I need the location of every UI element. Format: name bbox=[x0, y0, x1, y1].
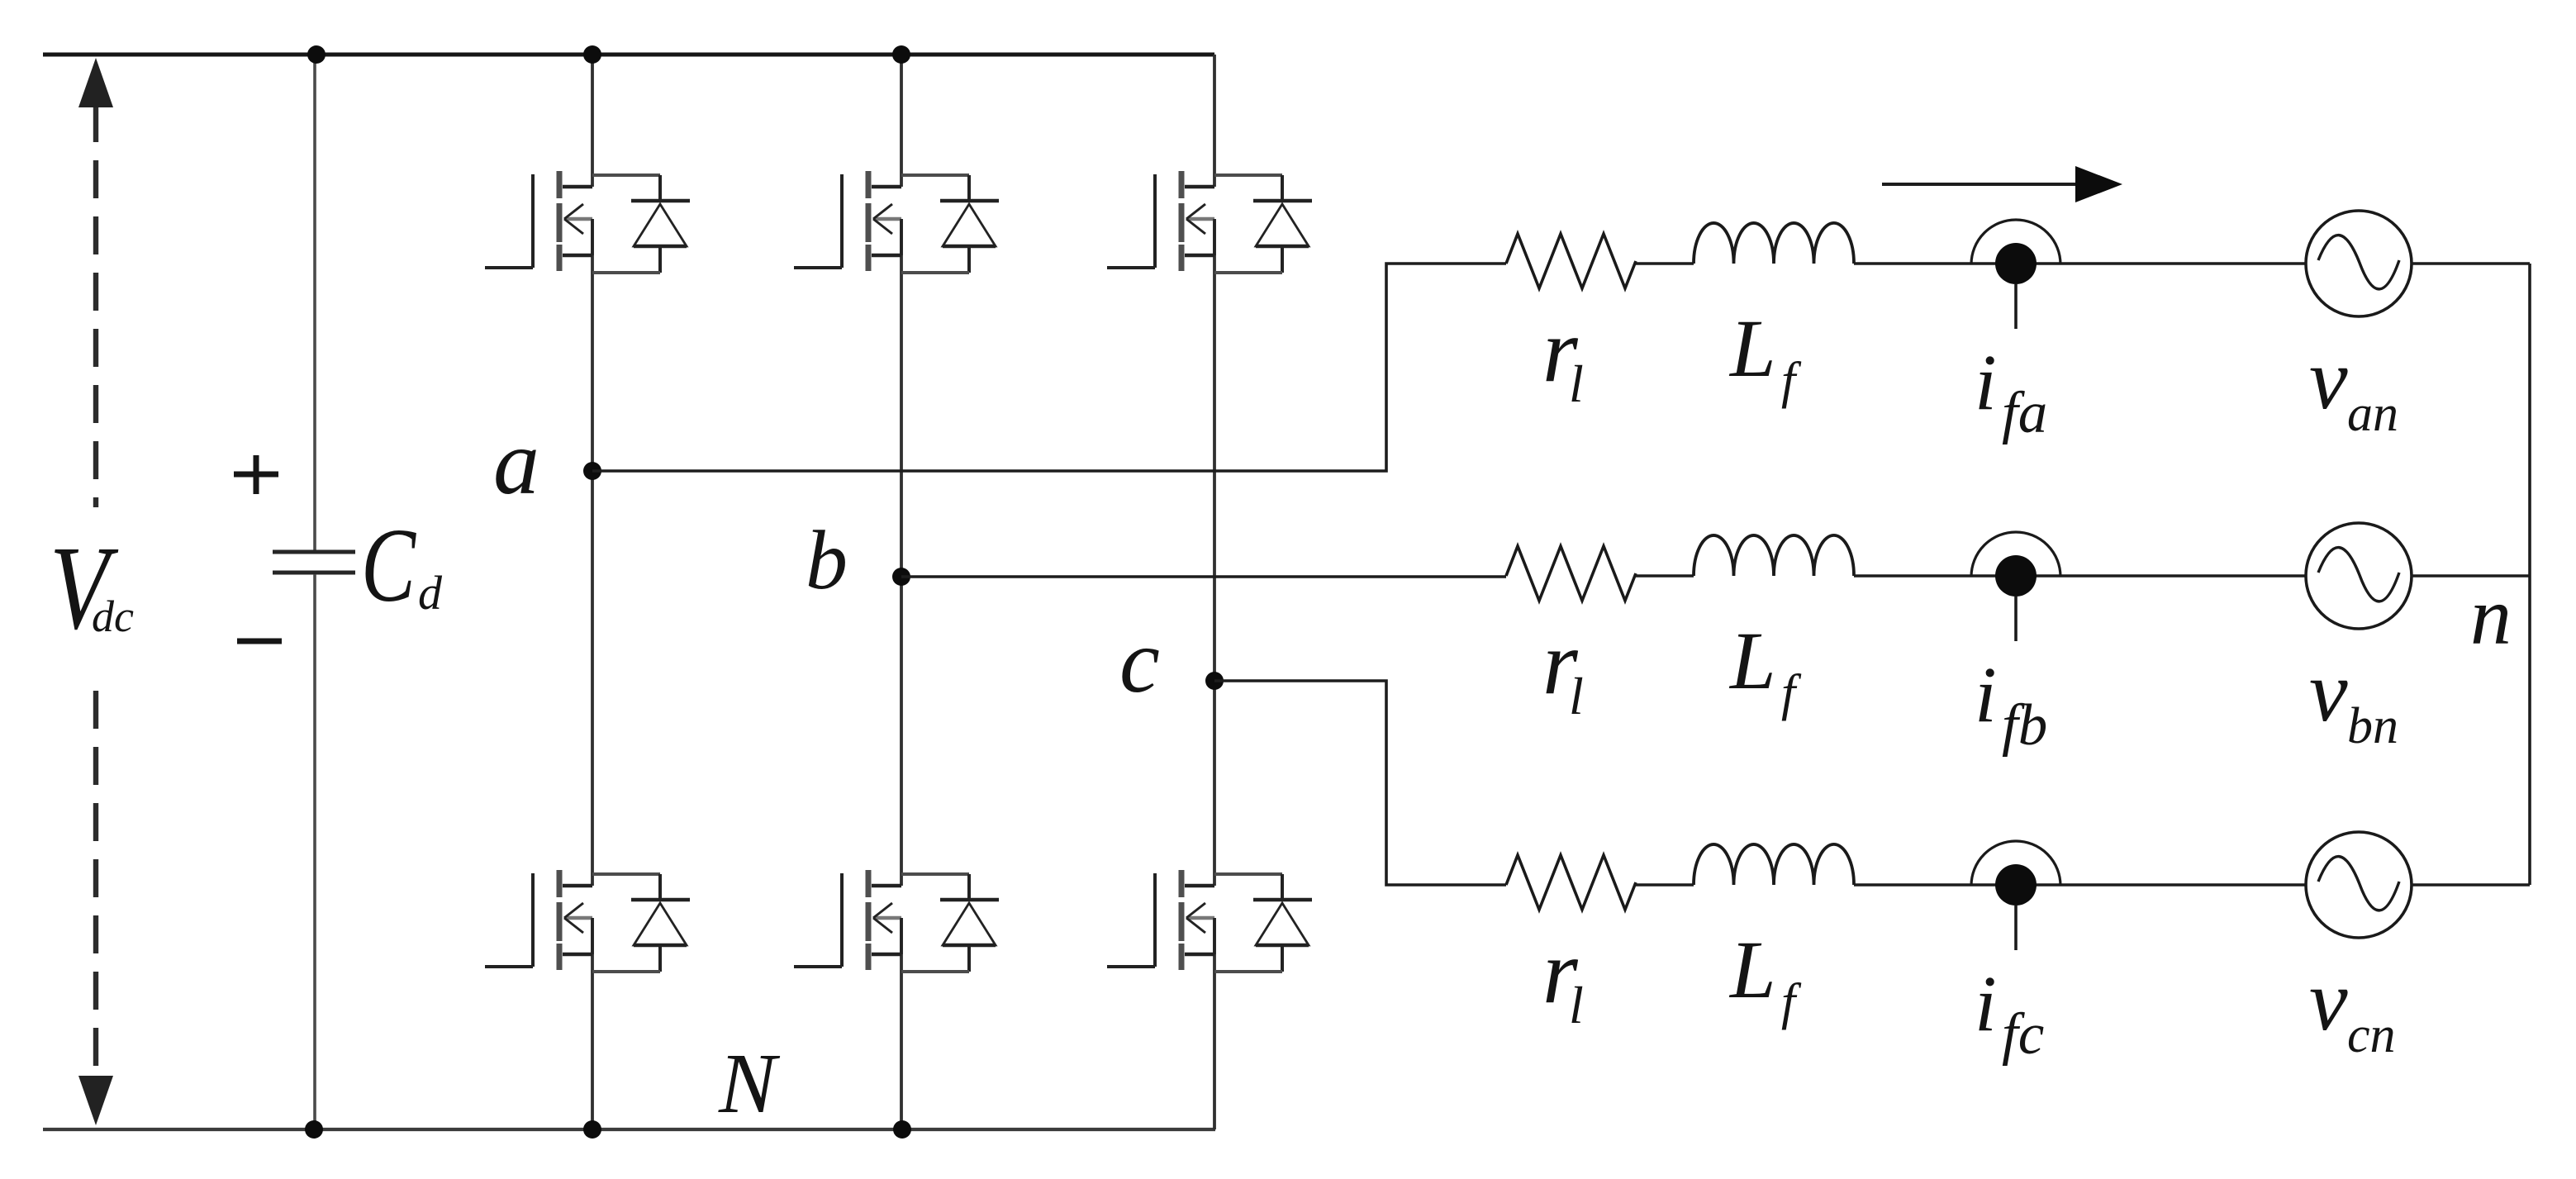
resistor rl (phase a) bbox=[1506, 234, 1636, 288]
wire source to n bus (phase a) bbox=[2412, 262, 2530, 265]
phase leg c wire bbox=[1213, 55, 1216, 1129]
inductor Lf (phase c) bbox=[1694, 844, 1854, 885]
svg-text:v: v bbox=[2309, 330, 2348, 427]
junction bottom bus / capacitor bbox=[305, 1120, 323, 1139]
capacitor Cd bbox=[273, 552, 355, 573]
wire from node c to phase-c branch bbox=[1214, 681, 1506, 885]
svg-text:L: L bbox=[1728, 924, 1776, 1015]
wire inductor to source (phase c) bbox=[1854, 883, 2306, 887]
AC source vbn bbox=[2306, 523, 2412, 629]
wire resistor to inductor (phase a) bbox=[1636, 262, 1694, 265]
Vdc measurement dashed arrow bbox=[78, 58, 113, 1125]
svg-text:d: d bbox=[418, 566, 443, 620]
wire inductor to source (phase a) bbox=[1854, 262, 2306, 265]
current direction arrow bbox=[1882, 183, 2082, 186]
wire from node b to phase-b branch bbox=[901, 575, 1506, 578]
transistor S5 (phase c upper MOSFET + diode) bbox=[1107, 171, 1312, 273]
svg-text:l: l bbox=[1569, 976, 1584, 1034]
AC source van bbox=[2306, 211, 2412, 316]
wire inductor to source (phase b) bbox=[1854, 574, 2306, 578]
capacitor Cd lower lead wire bbox=[313, 574, 316, 1129]
svg-text:L: L bbox=[1728, 302, 1776, 394]
AC source vcn bbox=[2306, 832, 2412, 938]
svg-text:c: c bbox=[1119, 611, 1160, 711]
svg-text:N: N bbox=[718, 1036, 781, 1131]
wire: bottom DC bus bbox=[43, 1128, 1215, 1131]
phase leg b wire bbox=[900, 55, 903, 1129]
junction bottom bus / leg b bbox=[893, 1120, 911, 1139]
svg-text:b: b bbox=[806, 514, 848, 607]
junction top bus / leg a bbox=[583, 45, 601, 64]
wire source to n bus (phase c) bbox=[2412, 883, 2530, 887]
transistor S2 (phase c lower MOSFET + diode) bbox=[1107, 870, 1312, 972]
current sensor ifb bbox=[1971, 532, 2060, 641]
capacitor Cd upper lead wire bbox=[313, 55, 316, 550]
plus sign bbox=[234, 455, 278, 494]
current sensor ifc bbox=[1971, 841, 2060, 950]
svg-text:cn: cn bbox=[2347, 1007, 2396, 1063]
wire: right n bus bbox=[2528, 264, 2531, 885]
svg-text:fb: fb bbox=[2002, 693, 2047, 758]
svg-text:L: L bbox=[1728, 615, 1776, 706]
transistor S1 (phase a upper MOSFET + diode) bbox=[485, 171, 690, 273]
svg-text:bn: bn bbox=[2347, 698, 2398, 754]
svg-text:an: an bbox=[2347, 386, 2398, 442]
junction top bus / capacitor bbox=[307, 45, 326, 64]
phase leg a wire bbox=[591, 55, 594, 1129]
junction bottom bus / leg a bbox=[583, 1120, 601, 1139]
svg-text:v: v bbox=[2309, 643, 2348, 739]
inductor Lf (phase a) bbox=[1694, 223, 1854, 264]
transistor S6 (phase b lower MOSFET + diode) bbox=[794, 870, 999, 972]
node a junction dot bbox=[583, 462, 601, 480]
svg-text:C: C bbox=[361, 506, 416, 624]
resistor rl (phase c) bbox=[1506, 855, 1636, 910]
svg-text:i: i bbox=[1975, 338, 1997, 426]
svg-text:a: a bbox=[493, 411, 539, 514]
wire from node a to phase-a branch bbox=[592, 264, 1506, 471]
svg-text:l: l bbox=[1569, 667, 1584, 725]
wire source to n bus (phase b) bbox=[2412, 574, 2530, 578]
current sensor ifa bbox=[1971, 220, 2060, 329]
svg-text:fa: fa bbox=[2002, 381, 2047, 445]
wire: top DC bus bbox=[43, 53, 1214, 57]
transistor S3 (phase b upper MOSFET + diode) bbox=[794, 171, 999, 273]
resistor rl (phase b) bbox=[1506, 546, 1636, 601]
inductor Lf (phase b) bbox=[1694, 535, 1854, 576]
minus sign bbox=[237, 639, 282, 644]
wire resistor to inductor (phase c) bbox=[1636, 883, 1694, 887]
wire resistor to inductor (phase b) bbox=[1636, 574, 1694, 578]
transistor S4 (phase a lower MOSFET + diode) bbox=[485, 870, 690, 972]
svg-text:l: l bbox=[1569, 354, 1584, 413]
junction top bus / leg b bbox=[892, 45, 910, 64]
svg-text:i: i bbox=[1975, 959, 1997, 1048]
svg-text:i: i bbox=[1975, 650, 1997, 739]
svg-text:dc: dc bbox=[92, 592, 134, 641]
node c junction dot bbox=[1205, 672, 1224, 690]
svg-text:v: v bbox=[2309, 952, 2348, 1048]
node b junction dot bbox=[892, 568, 910, 586]
svg-text:n: n bbox=[2470, 570, 2512, 662]
svg-text:fc: fc bbox=[2002, 1002, 2044, 1067]
